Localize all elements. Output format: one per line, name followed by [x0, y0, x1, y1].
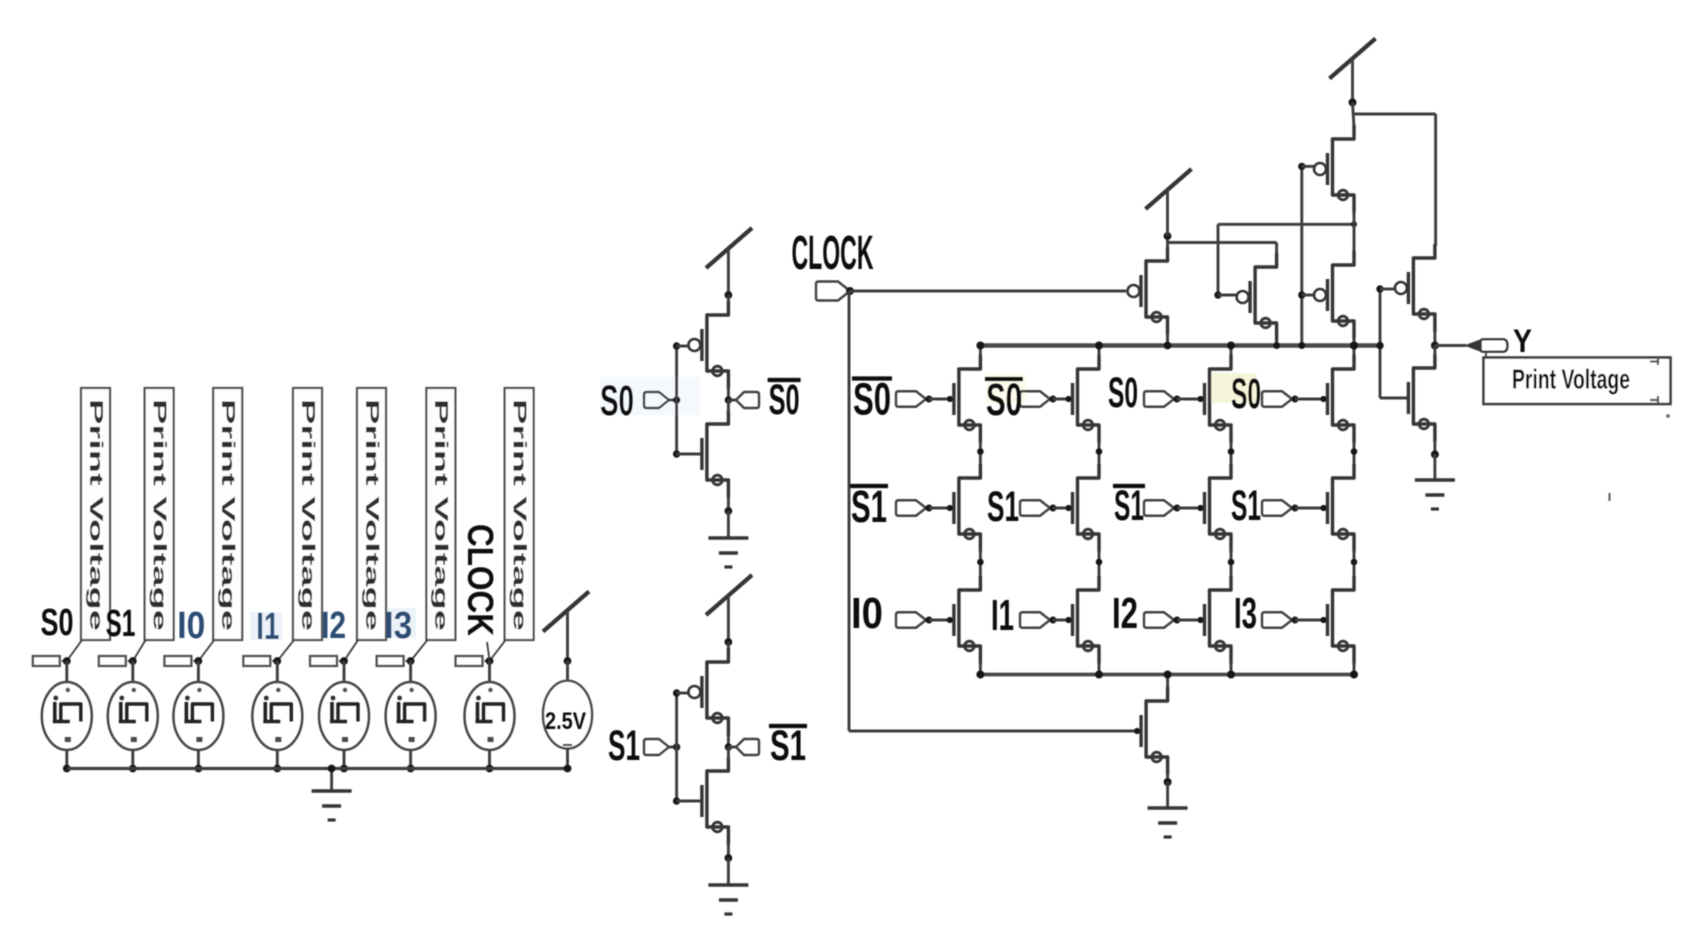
svg-text:I0: I0	[851, 590, 883, 638]
svg-text:I2: I2	[321, 605, 346, 647]
svg-text:S0: S0	[853, 374, 891, 425]
svg-text:S1: S1	[987, 483, 1019, 530]
svg-text:Print Voltage: Print Voltage	[1512, 364, 1630, 395]
svg-text:Print Voltage: Print Voltage	[149, 399, 169, 631]
svg-text:S0: S0	[769, 376, 800, 423]
svg-text:S0: S0	[41, 602, 74, 644]
svg-text:Print Voltage: Print Voltage	[509, 399, 529, 631]
svg-text:S0: S0	[1231, 370, 1261, 417]
svg-text:Print Voltage: Print Voltage	[218, 399, 238, 631]
svg-text:CLOCK: CLOCK	[792, 227, 874, 280]
svg-text:S1: S1	[1231, 482, 1261, 529]
svg-text:S0: S0	[600, 377, 634, 424]
svg-text:2.5V: 2.5V	[545, 708, 586, 735]
svg-text:Print Voltage: Print Voltage	[298, 399, 318, 631]
svg-text:S1: S1	[770, 722, 806, 769]
svg-text:S0: S0	[1108, 369, 1138, 416]
svg-text:I3: I3	[384, 605, 412, 647]
svg-text:I0: I0	[177, 605, 205, 647]
svg-text:Print Voltage: Print Voltage	[362, 399, 382, 631]
svg-text:I3: I3	[1234, 590, 1257, 638]
svg-text:S1: S1	[608, 722, 640, 769]
svg-text:I1: I1	[991, 592, 1014, 640]
svg-text:Print Voltage: Print Voltage	[431, 399, 451, 631]
svg-text:CLOCK: CLOCK	[460, 524, 501, 636]
svg-text:S1: S1	[105, 603, 135, 645]
svg-text:S0: S0	[986, 374, 1022, 425]
svg-text:S1: S1	[1114, 482, 1144, 529]
svg-text:S1: S1	[851, 481, 887, 532]
svg-text:Print Voltage: Print Voltage	[86, 399, 106, 631]
svg-text:I2: I2	[1112, 590, 1138, 638]
svg-text:I1: I1	[256, 606, 279, 648]
svg-text:Y: Y	[1513, 322, 1532, 359]
